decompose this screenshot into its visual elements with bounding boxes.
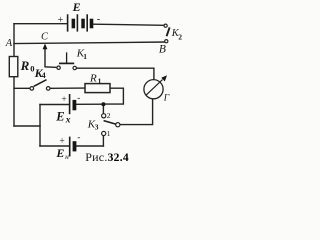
- svg-text:+: +: [58, 15, 64, 26]
- wire Ex branch left: [40, 104, 69, 106]
- wire galvanometer bottom to K3 pivot: [120, 99, 153, 124]
- wire left vertical below R0: [13, 77, 15, 126]
- node dot at Ex/R1/K3 junction: [101, 102, 105, 106]
- svg-text:Рис.32.4: Рис.32.4: [85, 150, 129, 164]
- wire K4 to R1: [50, 87, 85, 89]
- wire top left horizontal: [14, 23, 67, 25]
- battery En: [70, 137, 77, 157]
- svg-text:1: 1: [98, 76, 102, 85]
- wire top right horizontal: [94, 24, 164, 25]
- svg-text:1: 1: [107, 129, 111, 138]
- switch K1: [57, 52, 77, 69]
- battery E top: [68, 14, 94, 31]
- wire bottom-left corner to branch tee: [14, 125, 40, 127]
- wire En branch left: [40, 145, 69, 147]
- wire slide A-B: [14, 42, 166, 44]
- svg-text:R: R: [89, 72, 97, 84]
- wire branch vertical: [39, 105, 41, 147]
- switch K2: [164, 24, 170, 43]
- wire R1 right to Ex node: [103, 88, 123, 104]
- wire En battery to corner: [77, 145, 104, 147]
- slider arrow at C: [43, 44, 48, 50]
- svg-text:н: н: [65, 152, 69, 161]
- svg-text:E: E: [55, 146, 64, 160]
- galvanometer G: [144, 75, 167, 99]
- switch K3 selector: [102, 114, 120, 136]
- svg-text:C: C: [41, 32, 49, 43]
- svg-text:-: -: [97, 14, 100, 25]
- wire left vertical upper: [13, 24, 15, 57]
- wire K4 left: [14, 87, 30, 89]
- svg-text:+: +: [61, 95, 66, 105]
- svg-text:4: 4: [42, 71, 46, 80]
- wire K1 to galvanometer: [77, 68, 154, 81]
- svg-text:E: E: [55, 109, 64, 123]
- resistor R1: [85, 84, 110, 93]
- svg-text:x: x: [65, 115, 71, 125]
- svg-text:-: -: [77, 93, 80, 103]
- svg-text:E: E: [72, 0, 81, 14]
- svg-text:2: 2: [178, 32, 182, 41]
- svg-text:-: -: [77, 133, 80, 143]
- resistor R0: [9, 57, 17, 77]
- svg-text:A: A: [5, 38, 13, 49]
- wire node to K3 contact 2: [102, 104, 104, 113]
- svg-text:1: 1: [83, 52, 87, 61]
- svg-text:R: R: [20, 58, 30, 73]
- svg-text:3: 3: [95, 123, 99, 132]
- battery Ex: [70, 94, 77, 114]
- svg-text:B: B: [159, 43, 166, 55]
- wire Ex battery to node: [76, 103, 103, 105]
- wire K3 contact 1 down to En wire: [102, 136, 104, 146]
- wire slider C down: [45, 47, 57, 68]
- svg-text:Г: Г: [163, 94, 170, 104]
- switch K4: [30, 80, 50, 91]
- svg-text:2: 2: [107, 111, 111, 120]
